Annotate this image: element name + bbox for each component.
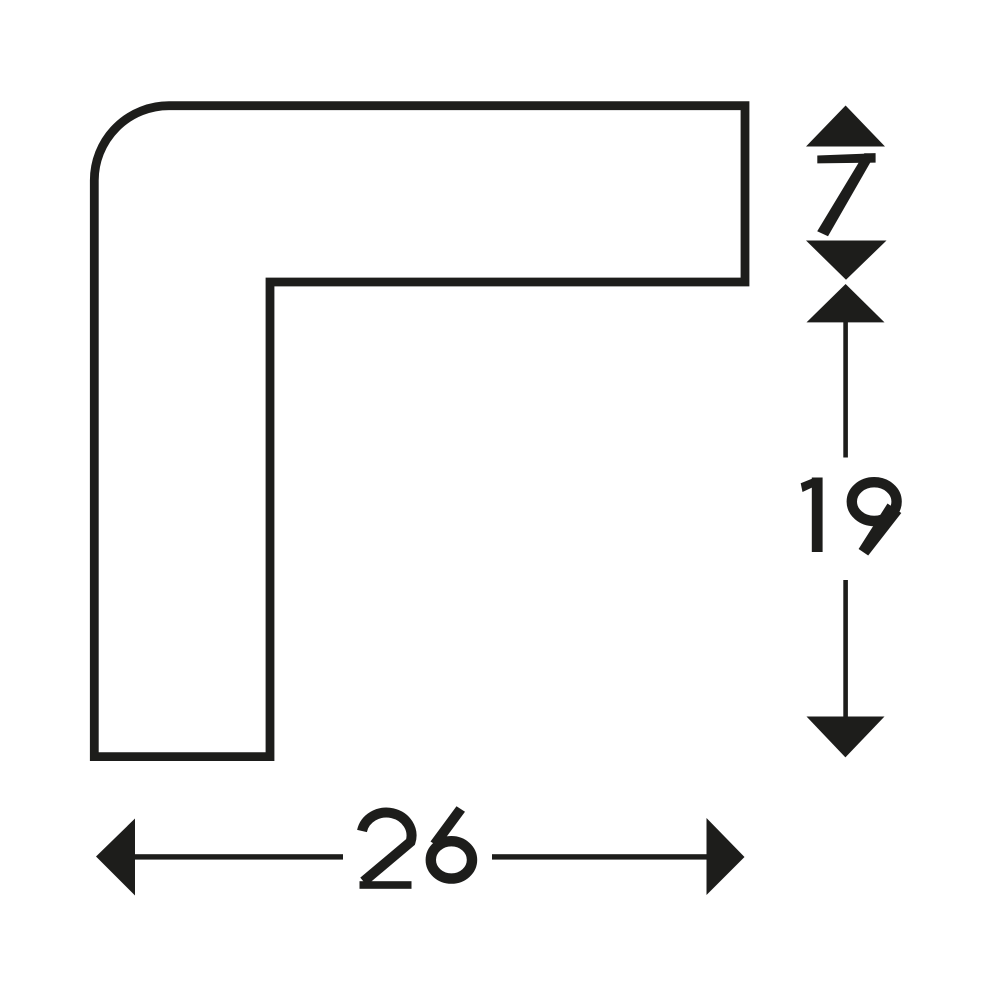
dim 19: digit 9 [852, 482, 902, 555]
dim 26: left arrow (points left) [96, 819, 135, 896]
dim 19: lower line [843, 580, 848, 717]
dim 19: top arrow (points up) [807, 284, 885, 322]
dim 26: digit 6 [431, 806, 473, 878]
dim 19: bottom arrow (points down) [807, 717, 885, 758]
dim 7: digit 7 [817, 153, 875, 236]
dim 26: right line [492, 854, 707, 859]
dim 7: bottom arrow (points down) [806, 241, 887, 280]
dim 7: top arrow (points up) [806, 106, 885, 147]
dim 19: upper line [843, 322, 848, 458]
dim 19: digit 1 [801, 478, 823, 553]
dim 26: left line [135, 854, 343, 859]
profile outline (L-shaped corner guard cross-section) [94, 106, 745, 757]
dim 26: right arrow (points right) [707, 818, 745, 895]
dim 26: digit 2 [360, 813, 412, 889]
